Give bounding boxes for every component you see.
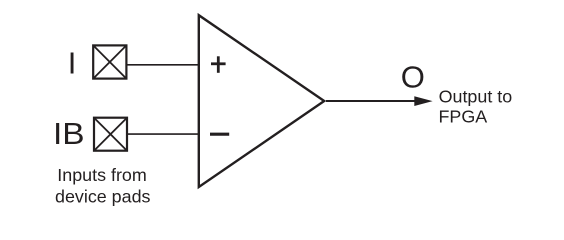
svg-text:Inputs from: Inputs from [57,165,147,185]
svg-text:O: O [401,60,425,95]
svg-text:I: I [68,46,77,81]
svg-text:Output to: Output to [439,86,513,106]
svg-text:device pads: device pads [55,186,151,206]
svg-text:IB: IB [53,116,85,151]
svg-text:FPGA: FPGA [439,106,488,126]
